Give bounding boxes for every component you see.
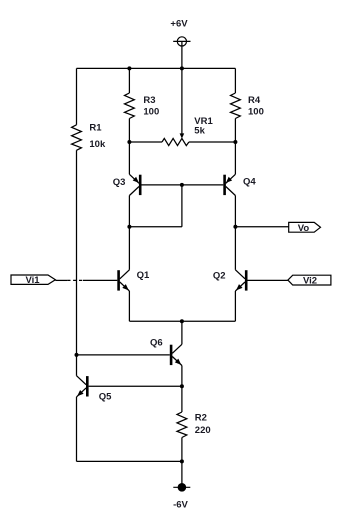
wire R4 stem top <box>234 68 236 93</box>
wire Q6 collector stem <box>181 321 183 344</box>
wire Q6 base <box>77 354 170 356</box>
input tag Vi2 <box>288 275 331 285</box>
transistor Q4 <box>225 174 236 195</box>
junction top rail / wiper <box>180 66 184 70</box>
wire -6V stem <box>181 461 183 487</box>
wire bottom rail <box>77 460 182 462</box>
svg-text:-6V: -6V <box>173 499 188 510</box>
wiper arrow <box>180 133 185 138</box>
wire Q6 emitter stem <box>181 366 183 387</box>
junction Q6 base / left rail <box>75 353 79 357</box>
svg-text:Q1: Q1 <box>137 270 150 281</box>
wire emitter bus <box>129 320 235 322</box>
wire power stem <box>181 41 183 68</box>
output tag Vo <box>289 222 321 232</box>
svg-text:Q2: Q2 <box>213 271 226 282</box>
wire Q3 emitter stem <box>128 142 130 174</box>
wire VR1 wiper <box>181 68 183 133</box>
svg-text:5k: 5k <box>194 125 205 136</box>
svg-text:+6V: +6V <box>170 19 188 30</box>
wire Vi1 dashed <box>67 279 83 281</box>
svg-text:220: 220 <box>195 425 211 436</box>
resistor R2 <box>177 412 187 438</box>
junction emitter node <box>180 319 184 323</box>
wire Vi1 solid a <box>55 279 67 281</box>
svg-text:Q6: Q6 <box>150 337 163 348</box>
input tag Vi1 <box>11 275 55 284</box>
junction VR1 left node <box>127 140 131 144</box>
power -6V symbol <box>173 483 190 492</box>
junction top rail / R3 <box>127 66 131 70</box>
wire Vo <box>235 226 288 228</box>
svg-text:100: 100 <box>248 106 264 117</box>
svg-text:100: 100 <box>143 106 159 117</box>
svg-text:Q3: Q3 <box>113 177 126 188</box>
svg-text:Q4: Q4 <box>243 176 256 187</box>
wire R3 stem bottom <box>128 119 130 143</box>
transistor Q2 <box>235 270 246 291</box>
resistor R1 <box>72 125 82 151</box>
wire R2 stem bottom <box>181 438 183 462</box>
resistor R4 <box>231 93 241 119</box>
wire Q1 emitter stem <box>128 291 130 321</box>
svg-text:R4: R4 <box>248 95 261 106</box>
wire top rail <box>77 67 236 69</box>
svg-text:Vo: Vo <box>298 223 310 234</box>
junction R2 top node <box>180 384 184 388</box>
wire Q4 collector to Q2 <box>234 196 236 270</box>
junction R2 bottom node <box>180 459 184 463</box>
svg-text:Vi2: Vi2 <box>303 275 317 286</box>
wire left rail upper <box>76 68 78 124</box>
junction VR1 right node <box>233 140 237 144</box>
wire Q5 base <box>89 385 182 387</box>
wire VR1 left <box>129 141 162 143</box>
transistor Q6 <box>171 344 182 365</box>
junction base node <box>180 183 184 187</box>
wire Q5 emitter stem <box>76 397 78 462</box>
potentiometer VR1 <box>162 138 189 145</box>
wire VR1 right <box>189 141 236 143</box>
wire mirror tie <box>129 226 182 228</box>
wire left rail lower <box>76 150 78 375</box>
wire Q3 collector to Q1 <box>128 196 130 270</box>
wire Q2 emitter stem <box>234 291 236 321</box>
transistor Q1 <box>119 270 130 291</box>
wire Q4 emitter stem <box>234 142 236 174</box>
wire Q2 base <box>248 279 288 281</box>
svg-text:Vi1: Vi1 <box>25 275 40 286</box>
svg-text:R1: R1 <box>89 123 102 134</box>
wire base drop <box>181 185 183 227</box>
svg-text:R2: R2 <box>195 412 207 423</box>
wire R3 stem top <box>128 68 130 93</box>
svg-text:R3: R3 <box>143 95 155 106</box>
wire Q3-Q4 base <box>142 184 224 186</box>
wire R2 stem top <box>181 386 183 412</box>
wire R4 stem bottom <box>234 119 236 143</box>
wire Vi1 solid b <box>83 279 117 281</box>
junction mirror node <box>127 225 131 229</box>
transistor Q5 <box>77 376 88 397</box>
resistor R3 <box>125 93 135 119</box>
junction Vo node <box>233 225 237 229</box>
svg-text:Q5: Q5 <box>99 391 112 402</box>
transistor Q3 <box>129 174 140 195</box>
power +6V symbol <box>173 37 190 46</box>
svg-text:10k: 10k <box>89 139 106 150</box>
